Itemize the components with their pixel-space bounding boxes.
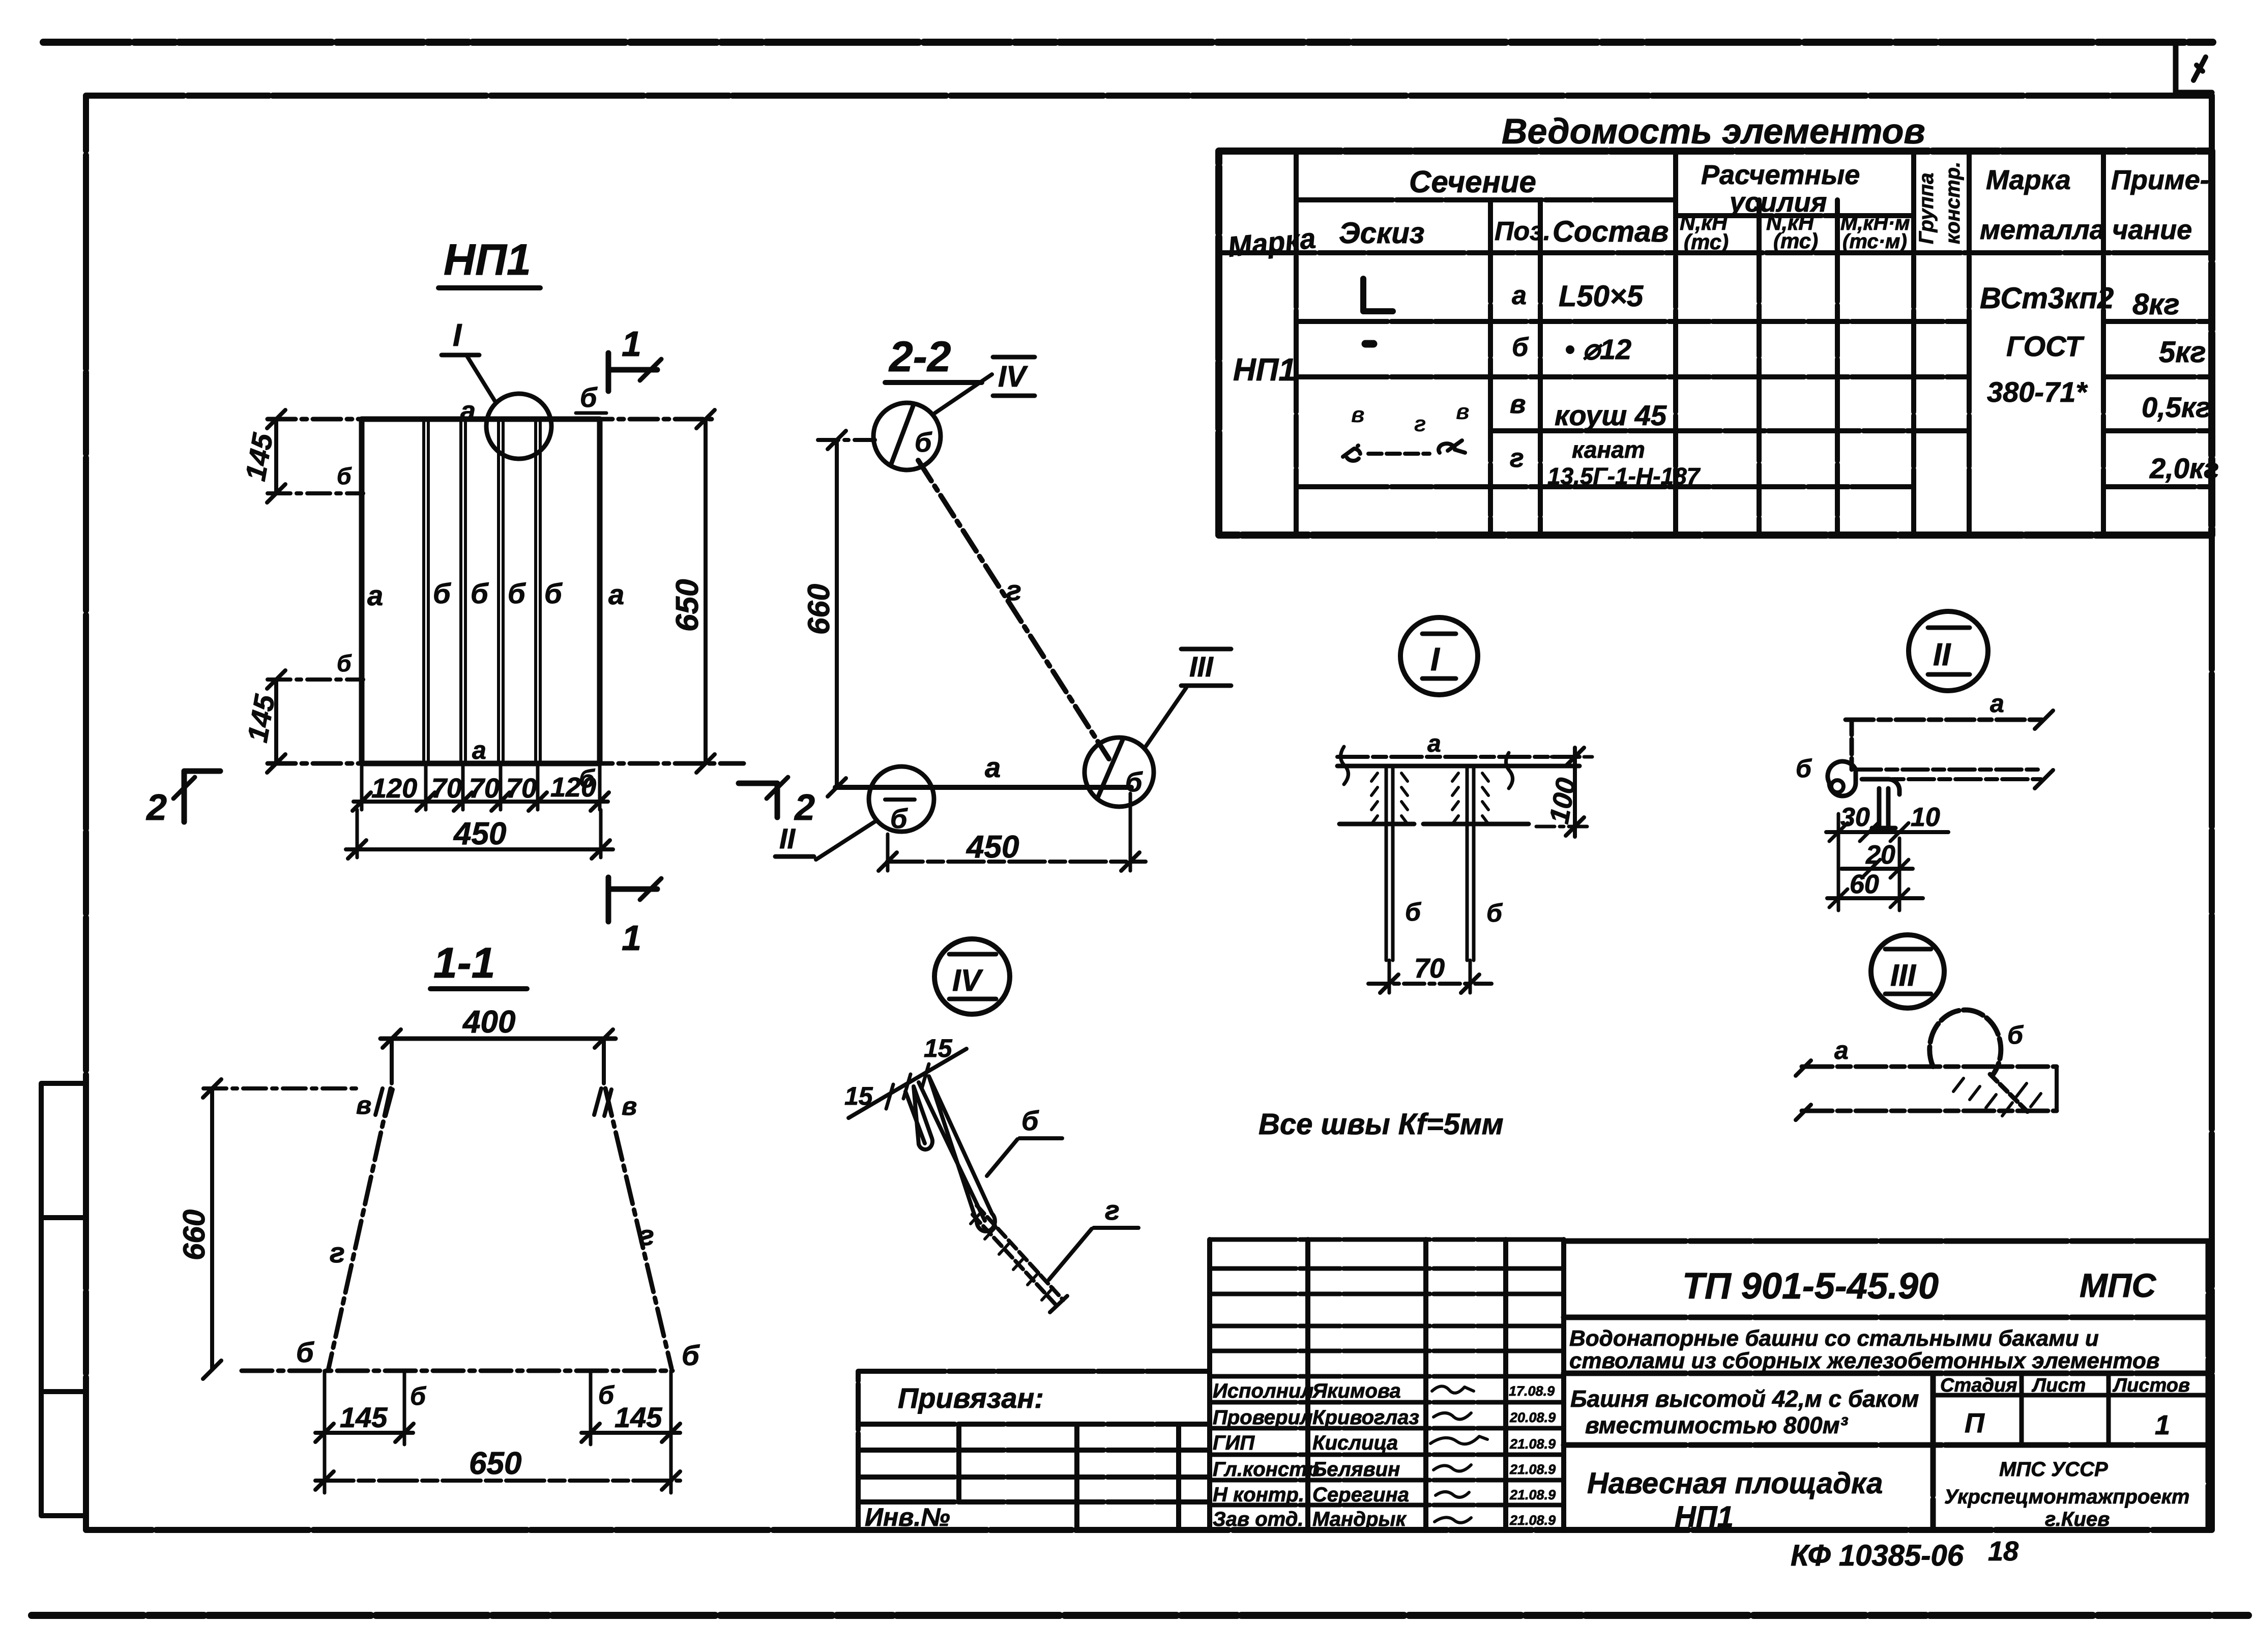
svg-text:стволами из сборных железобето: стволами из сборных железобетонных элеме… xyxy=(1569,1348,2159,1373)
svg-text:Поз.: Поз. xyxy=(1495,217,1550,246)
svg-text:б: б xyxy=(1796,754,1812,783)
svg-text:1: 1 xyxy=(2155,1410,2170,1440)
dim 650 right: slash arrows xyxy=(696,410,715,773)
svg-text:8кг: 8кг xyxy=(2132,288,2180,321)
svg-text:а: а xyxy=(608,578,624,610)
svg-text:Навесная площадка: Навесная площадка xyxy=(1587,1467,1883,1500)
svg-text:450: 450 xyxy=(453,816,506,851)
title underline xyxy=(438,285,540,290)
svg-text:б: б xyxy=(915,427,932,458)
svg-text:канат: канат xyxy=(1572,436,1645,463)
dim 660: slash arrows xyxy=(203,1079,221,1379)
svg-text:(тс): (тс) xyxy=(1773,229,1818,253)
svg-text:145: 145 xyxy=(239,430,279,483)
plate top line solid xyxy=(1337,764,1579,769)
svg-text:(тс·м): (тс·м) xyxy=(1842,230,1907,253)
rod b1 xyxy=(424,419,428,763)
weld marks v left xyxy=(375,1088,393,1116)
svg-text:ВСт3кп2: ВСт3кп2 xyxy=(1980,282,2114,315)
svg-text:Белявин: Белявин xyxy=(1312,1458,1400,1481)
dim 145 left: line xyxy=(315,1431,413,1435)
svg-text:констр.: констр. xyxy=(1942,162,1964,244)
svg-text:б: б xyxy=(471,577,489,609)
svg-text:в: в xyxy=(1456,399,1470,424)
svg-text:Приме-: Приме- xyxy=(2111,165,2209,195)
svg-text:III: III xyxy=(1189,651,1214,683)
svg-text:МПС: МПС xyxy=(2080,1266,2156,1304)
svg-text:Привязан:: Привязан: xyxy=(898,1382,1044,1414)
svg-text:б: б xyxy=(1486,899,1503,927)
svg-text:IV: IV xyxy=(952,963,984,997)
plate top line xyxy=(1802,1065,2057,1069)
svg-text:70: 70 xyxy=(1414,953,1445,984)
table column lines xyxy=(1296,151,2103,535)
svg-text:б: б xyxy=(2007,1021,2024,1049)
dim 70: extensions xyxy=(1389,960,1470,993)
svg-text:б: б xyxy=(682,1339,700,1371)
svg-text:б: б xyxy=(410,1382,427,1410)
svg-text:б: б xyxy=(296,1336,314,1368)
svg-text:П: П xyxy=(1965,1408,1985,1438)
svg-text:б: б xyxy=(337,650,352,676)
dim line 15-15 diagonal xyxy=(848,1049,967,1118)
svg-text:21.08.9: 21.08.9 xyxy=(1509,1436,1556,1452)
rope hatches xyxy=(1953,1078,2041,1116)
signatures scribbles xyxy=(1430,1386,1487,1522)
rod 1 weld hatches xyxy=(1371,773,1408,824)
svg-text:• ⌀12: • ⌀12 xyxy=(1565,333,1631,365)
detail IV circle xyxy=(934,939,1010,1014)
section mark 2 right xyxy=(739,783,777,817)
svg-text:IV: IV xyxy=(998,360,1028,393)
staff table grid xyxy=(1210,1240,1564,1530)
svg-text:вместимостью 800м³: вместимостью 800м³ xyxy=(1585,1412,1849,1438)
svg-text:а: а xyxy=(367,579,383,611)
rod 2 xyxy=(1467,766,1474,960)
dim 660: top extension dash xyxy=(818,438,878,442)
dim 660: line xyxy=(835,440,839,787)
svg-text:ТП 901-5-45.90: ТП 901-5-45.90 xyxy=(1682,1266,1939,1307)
svg-text:Н контр.: Н контр. xyxy=(1213,1484,1304,1506)
svg-text:30: 30 xyxy=(1840,803,1870,832)
loop on top xyxy=(1929,1010,2001,1076)
svg-text:III: III xyxy=(1890,958,1916,992)
dim 660: top extension xyxy=(203,1086,359,1090)
dim 650 right: line xyxy=(704,419,708,763)
hairpin rod short xyxy=(905,1086,932,1149)
section mark 1 bottom xyxy=(608,877,657,922)
svg-text:17.08.9: 17.08.9 xyxy=(1509,1383,1555,1399)
svg-text:70: 70 xyxy=(431,773,462,804)
rod 1 xyxy=(1386,766,1393,960)
eskiz row a : L angle xyxy=(1363,279,1393,311)
svg-text:б: б xyxy=(433,577,451,609)
svg-text:Инв.№: Инв.№ xyxy=(865,1503,950,1531)
staff row names xyxy=(1213,1380,1419,1530)
svg-text:КФ 10385-06: КФ 10385-06 xyxy=(1791,1539,1964,1572)
svg-text:НП1: НП1 xyxy=(444,235,531,284)
svg-text:20: 20 xyxy=(1865,840,1895,870)
svg-text:1-1: 1-1 xyxy=(433,939,495,987)
break squiggles xyxy=(1340,747,1512,788)
svg-text:1: 1 xyxy=(622,324,641,364)
svg-text:70: 70 xyxy=(469,773,500,804)
leader III xyxy=(1146,688,1186,747)
weld marks v right xyxy=(594,1088,611,1116)
svg-text:а: а xyxy=(1990,689,2004,718)
weld slash in circle III xyxy=(1098,739,1123,798)
svg-text:15: 15 xyxy=(844,1082,873,1110)
dim 450: slash arrows xyxy=(879,852,1139,871)
svg-text:г: г xyxy=(1414,411,1426,436)
svg-text:б: б xyxy=(337,463,352,489)
bottom edge dash-dot xyxy=(242,1369,672,1373)
svg-text:650: 650 xyxy=(670,579,705,632)
table header row lines xyxy=(1219,200,2212,253)
svg-text:20.08.9: 20.08.9 xyxy=(1509,1410,1556,1425)
svg-text:Серегина: Серегина xyxy=(1312,1484,1409,1506)
detail II circle xyxy=(1909,611,1988,691)
svg-text:400: 400 xyxy=(462,1005,515,1040)
rope through plate xyxy=(1990,1074,2030,1114)
right slant side xyxy=(605,1088,671,1368)
svg-text:Проверил: Проверил xyxy=(1213,1406,1313,1429)
corner tick 1 xyxy=(2193,57,2206,80)
svg-text:г: г xyxy=(1510,444,1524,473)
svg-text:L50×5: L50×5 xyxy=(1559,280,1644,313)
dim 145 right: line xyxy=(581,1431,680,1435)
svg-text:Мандрык: Мандрык xyxy=(1312,1508,1407,1530)
svg-text:Стадия: Стадия xyxy=(1940,1375,2017,1396)
corner stubs xyxy=(392,1039,604,1083)
dim 145 upper left: extension line xyxy=(268,491,363,495)
rope g diagonal dash-dot xyxy=(918,460,1109,759)
svg-text:в: в xyxy=(356,1091,371,1119)
section mark 1 top xyxy=(608,353,657,391)
circle III right xyxy=(1085,737,1154,807)
svg-text:б: б xyxy=(1512,333,1529,362)
svg-text:Кривоглаз: Кривоглаз xyxy=(1312,1406,1419,1429)
svg-text:I: I xyxy=(453,318,462,353)
svg-text:450: 450 xyxy=(965,830,1019,865)
below-bottom extension verticals xyxy=(325,1371,671,1493)
svg-text:Лист: Лист xyxy=(2031,1375,2086,1396)
eskiz rows v-g : koush sketch xyxy=(1343,399,1470,461)
svg-text:МПС УССР: МПС УССР xyxy=(1999,1458,2108,1481)
svg-text:II: II xyxy=(1933,637,1951,672)
rod 2 weld hatches xyxy=(1452,773,1488,824)
svg-text:НП1: НП1 xyxy=(1675,1500,1734,1533)
dim 30/10: line xyxy=(1826,830,1948,834)
circle II bottom-left xyxy=(869,766,934,832)
dates xyxy=(1509,1383,1556,1528)
svg-text:145: 145 xyxy=(615,1401,662,1433)
svg-text:коуш 45: коуш 45 xyxy=(1555,399,1667,431)
dim 145 lower: line xyxy=(274,680,278,763)
svg-text:б: б xyxy=(1405,898,1422,926)
dim 450: line xyxy=(346,847,613,851)
svg-text:б: б xyxy=(580,382,598,413)
dim 660: slash arrows xyxy=(828,431,846,796)
detail I circle xyxy=(1400,617,1478,695)
bottom angle line a xyxy=(835,785,1131,790)
hook loop xyxy=(1828,761,1899,828)
table data row lines xyxy=(1296,321,2212,487)
svg-text:Кислица: Кислица xyxy=(1312,1432,1398,1454)
svg-text:2: 2 xyxy=(794,787,815,828)
svg-text:б: б xyxy=(1125,767,1143,798)
svg-text:2,0кг: 2,0кг xyxy=(2149,452,2219,484)
svg-text:120: 120 xyxy=(550,772,596,803)
right block frame xyxy=(1564,1241,2208,1530)
svg-text:Зав отд.: Зав отд. xyxy=(1213,1508,1304,1530)
svg-text:Листов: Листов xyxy=(2112,1375,2190,1396)
svg-text:70: 70 xyxy=(506,773,537,804)
weld slash in circle IV xyxy=(891,406,913,464)
end tick xyxy=(1050,1296,1067,1312)
section mark 2 left xyxy=(184,771,220,822)
svg-text:Сечение: Сечение xyxy=(1409,165,1536,199)
svg-text:Расчетные: Расчетные xyxy=(1701,160,1860,190)
svg-text:21.08.9: 21.08.9 xyxy=(1509,1513,1556,1528)
dim 145 upper: line xyxy=(274,419,278,493)
dim 70: line xyxy=(1368,982,1491,986)
dim 450: extensions xyxy=(888,793,1130,871)
circle IV callout xyxy=(873,403,941,470)
svg-text:Башня высотой 42,м с баком: Башня высотой 42,м с баком xyxy=(1570,1385,1919,1412)
leader to I xyxy=(467,356,496,403)
svg-text:21.08.9: 21.08.9 xyxy=(1509,1487,1556,1502)
svg-text:II: II xyxy=(779,822,796,854)
svg-text:2-2: 2-2 xyxy=(888,333,951,380)
leader II xyxy=(816,821,876,860)
svg-text:120: 120 xyxy=(371,773,417,804)
dim 60: line xyxy=(1827,896,1923,900)
leader IV xyxy=(935,374,992,413)
svg-text:1: 1 xyxy=(622,918,641,958)
rod b2 xyxy=(461,419,465,763)
corner sheet-number box xyxy=(2176,44,2212,93)
rod b3 xyxy=(499,419,503,763)
rope g hatched band xyxy=(973,1215,1057,1306)
plate top dashed line xyxy=(1846,718,2046,722)
svg-text:ГОСТ: ГОСТ xyxy=(2006,330,2085,362)
svg-text:металла: металла xyxy=(1980,215,2105,245)
svg-text:г: г xyxy=(639,1219,654,1251)
svg-text:0,5кг: 0,5кг xyxy=(2142,391,2211,423)
svg-text:Состав: Состав xyxy=(1553,215,1669,248)
svg-text:б: б xyxy=(1021,1106,1039,1136)
svg-text:в: в xyxy=(622,1092,637,1120)
dim ticks xyxy=(886,1064,929,1109)
svg-text:а: а xyxy=(985,751,1001,783)
bottom extension verticals xyxy=(362,763,600,810)
svg-text:а: а xyxy=(1427,730,1441,757)
svg-text:г: г xyxy=(330,1236,345,1268)
plate top line dashed xyxy=(1337,755,1579,759)
svg-text:Марка: Марка xyxy=(1226,222,1318,263)
privyazan table xyxy=(858,1371,1210,1530)
svg-text:Все швы Кf=5мм: Все швы Кf=5мм xyxy=(1259,1108,1504,1141)
table outer frame xyxy=(1219,151,2212,535)
svg-text:а: а xyxy=(460,396,476,426)
svg-text:Исполнил: Исполнил xyxy=(1213,1380,1313,1402)
svg-text:10: 10 xyxy=(1911,803,1940,832)
svg-text:Водонапорные башни со стальны: Водонапорные башни со стальными баками и xyxy=(1569,1326,2099,1351)
plate bottom double line xyxy=(1856,770,2041,779)
svg-text:чание: чание xyxy=(2112,215,2192,245)
svg-text:Эскиз: Эскиз xyxy=(1339,217,1424,250)
detail III circle xyxy=(1871,935,1944,1008)
svg-text:I: I xyxy=(1430,641,1440,677)
svg-text:21.08.9: 21.08.9 xyxy=(1509,1462,1556,1477)
dim 400 / top edge xyxy=(381,1037,616,1041)
eskiz row b : dot xyxy=(1365,340,1373,348)
dim extension verticals xyxy=(1838,814,1899,910)
dim 450: slash arrows xyxy=(348,840,610,859)
bottom dim slash arrows xyxy=(353,792,609,811)
svg-text:а: а xyxy=(1834,1036,1849,1065)
svg-text:60: 60 xyxy=(1850,870,1879,899)
svg-text:380-71*: 380-71* xyxy=(1987,376,2088,408)
rod b4 xyxy=(536,419,540,763)
svg-text:в: в xyxy=(1351,402,1365,427)
svg-text:13,5Г-1-Н-187: 13,5Г-1-Н-187 xyxy=(1547,463,1701,489)
bottom dim line 120/70/70/70/120 xyxy=(354,800,608,804)
title underline xyxy=(885,380,982,385)
svg-text:Гл.констр: Гл.констр xyxy=(1213,1458,1320,1481)
svg-text:18: 18 xyxy=(1988,1536,2018,1567)
plate left vertical xyxy=(1850,720,1854,770)
svg-text:145: 145 xyxy=(340,1401,388,1433)
svg-text:а: а xyxy=(1512,281,1527,310)
svg-text:Укрспецмонтажпроект: Укрспецмонтажпроект xyxy=(1944,1486,2189,1508)
left end ticks xyxy=(1796,1060,1811,1120)
hairpin rod long xyxy=(919,1076,995,1231)
dim 100: extensions xyxy=(1536,757,1592,827)
svg-text:б: б xyxy=(598,1381,615,1409)
svg-text:Ведомость элементов: Ведомость элементов xyxy=(1502,111,1925,151)
dim 660: line xyxy=(210,1088,214,1370)
svg-text:Группа: Группа xyxy=(1915,173,1938,244)
svg-text:5кг: 5кг xyxy=(2159,336,2206,369)
left slant side xyxy=(329,1088,391,1368)
dim 450: line xyxy=(887,860,1146,864)
plate NP1 outline xyxy=(362,419,600,763)
svg-text:а: а xyxy=(472,736,486,764)
svg-text:Марка: Марка xyxy=(1986,165,2071,195)
svg-text:б: б xyxy=(890,804,908,834)
outer bottom dashed border xyxy=(32,1612,2248,1619)
svg-text:660: 660 xyxy=(177,1209,211,1260)
svg-text:б: б xyxy=(544,577,563,609)
dim 450: extensions xyxy=(357,810,601,858)
left margin boxes xyxy=(41,1083,84,1516)
dim 145 lower left: extension line xyxy=(268,677,363,682)
top edge dash-dot extension xyxy=(268,417,712,422)
svg-text:НП1: НП1 xyxy=(1233,352,1296,388)
dim 145 lower: slash arrows xyxy=(267,670,285,773)
svg-text:15: 15 xyxy=(924,1034,953,1063)
dim 20: line xyxy=(1841,867,1913,871)
dim 650: line xyxy=(315,1479,680,1483)
svg-text:г: г xyxy=(1006,574,1021,606)
svg-text:650: 650 xyxy=(469,1446,521,1481)
svg-text:Якимова: Якимова xyxy=(1312,1380,1401,1402)
small circle of hook xyxy=(1831,780,1844,792)
svg-text:(тс): (тс) xyxy=(1684,230,1729,254)
outer top dashed border xyxy=(43,39,2213,46)
plate right end xyxy=(2055,1067,2059,1111)
plate bottom line xyxy=(1339,822,1529,827)
svg-text:в: в xyxy=(1510,390,1526,419)
svg-text:ГИП: ГИП xyxy=(1213,1432,1255,1454)
right end ticks xyxy=(2035,711,2053,788)
detail I callout circle xyxy=(486,394,551,459)
svg-text:660: 660 xyxy=(802,584,836,635)
plate bottom line xyxy=(1802,1109,2057,1113)
bottom edge dash-dot extension xyxy=(268,761,744,766)
dim 145 upper: slash arrows xyxy=(267,410,285,503)
svg-text:г.Киев: г.Киев xyxy=(2045,1508,2110,1530)
dim 100: line xyxy=(1573,748,1577,837)
dim 400 slash arrows xyxy=(383,1029,613,1048)
svg-text:2: 2 xyxy=(145,787,167,828)
title underline xyxy=(430,986,527,991)
stadia list listov columns xyxy=(1933,1373,2208,1445)
svg-text:б: б xyxy=(508,577,526,609)
svg-text:г: г xyxy=(1105,1195,1120,1226)
